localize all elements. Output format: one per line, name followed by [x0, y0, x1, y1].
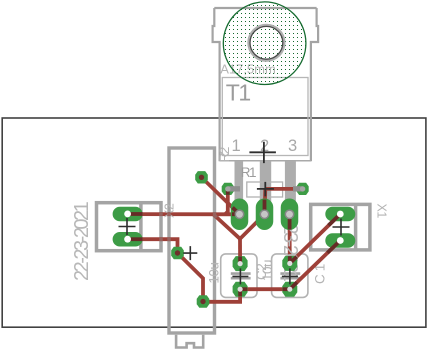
X1 pad 1 (oval): [325, 207, 355, 222]
X1 pad 1 hole: [337, 211, 344, 218]
X1 origin cross: [333, 219, 350, 236]
via V1 hole: [199, 175, 204, 180]
T1 pad 1 hole: [235, 210, 243, 218]
C2 pad 1 hole: [238, 261, 243, 266]
C1 origin cross: [282, 268, 298, 284]
svg-text:10u: 10u: [260, 260, 275, 281]
X1 pad 2 (oval): [325, 233, 355, 248]
C1 pad 1 (octagon): [282, 256, 297, 271]
svg-text:3: 3: [288, 137, 297, 155]
wire X2.1 to J0: [128, 212, 240, 216]
X2 origin cross: [119, 218, 136, 235]
outline-over-trace blends: [139, 212, 216, 241]
X2 pad 1 hole: [124, 211, 131, 218]
svg-text:1: 1: [232, 137, 241, 155]
svg-text:R1: R1: [241, 165, 256, 180]
wire C2 pad2 to C1 pad2: [240, 287, 290, 291]
T1 pad 1 (oval): [231, 199, 249, 231]
C1 pad 2 hole: [287, 287, 292, 292]
capacitor C2 outline: [221, 254, 257, 298]
T1 hole ring inner edge: [250, 26, 283, 59]
C1 pad 2 (octagon): [282, 282, 297, 297]
T1 origin cross: [249, 142, 276, 163]
R1 lead stub right: [293, 186, 303, 191]
heatsink bottom tab: [176, 335, 203, 348]
svg-text:T1: T1: [226, 79, 251, 105]
C2 pad 2 (octagon): [233, 282, 248, 297]
C2 pad 1 (octagon): [233, 256, 248, 271]
via B hole: [200, 299, 205, 304]
T1 leg 3: [285, 161, 296, 205]
via B (octagon): [197, 295, 210, 307]
X1 pad 2 hole: [337, 237, 344, 244]
svg-text:R2: R2: [216, 146, 232, 162]
wire C1 pad1 to X1.1: [290, 214, 341, 263]
R1 pad 1 hole: [225, 186, 230, 191]
T1 pad 2 hole: [260, 210, 268, 218]
wire R1 origin to T1 pad2: [263, 189, 268, 214]
connector X1 outline: [311, 204, 370, 250]
T1 inner body rectangle: [222, 78, 308, 156]
wire via V1 to T1 pad1: [202, 177, 240, 214]
C1 pad 1 hole: [287, 261, 292, 266]
wire J0 to J1: [213, 214, 240, 239]
X2 pad 2 hole: [124, 236, 131, 243]
heatsink origin cross: [183, 246, 197, 260]
connector X2 divider: [139, 203, 143, 251]
capacitor C1 outline: [272, 254, 308, 298]
R1 origin cross: [257, 182, 274, 197]
T1 keepout dotted circle: [223, 2, 306, 85]
svg-text:22-23-2021: 22-23-2021: [71, 201, 93, 281]
T1 pad 3 (oval): [281, 199, 299, 231]
R1 pad 2 (octagon): [297, 183, 309, 195]
R1 pad 2 hole: [300, 186, 305, 191]
board frame: [2, 118, 426, 327]
heatsink outline: [169, 148, 215, 333]
connector X1 divider: [354, 205, 358, 250]
in-pad trace overlays: [128, 189, 340, 296]
svg-text:10u: 10u: [207, 263, 222, 284]
wire via B to C2 pad2: [203, 289, 240, 302]
via A hole: [175, 250, 180, 255]
T1 pad 2 (oval): [256, 199, 274, 231]
capacitor C1 plates: [280, 272, 300, 275]
T1 hole ring: [249, 25, 285, 61]
wire X2.2 to via A: [128, 239, 178, 253]
svg-text:X1: X1: [375, 204, 389, 219]
wire T1 pad3 to C1 pad1: [288, 214, 292, 263]
transformer T1 body outline: [213, 8, 319, 161]
T1 pad 3 hole: [285, 210, 293, 218]
T1 leg 2: [260, 161, 271, 205]
via V1 (octagon): [195, 171, 208, 183]
via A (octagon): [171, 247, 184, 259]
resistor R1 body outline: [247, 182, 283, 197]
wire R1 pad1 down: [225, 189, 228, 214]
X2 pad 1 (oval): [113, 207, 143, 222]
R1 lead stub left: [228, 186, 240, 191]
C2 origin cross: [232, 268, 248, 284]
wire via A to via B: [178, 253, 204, 302]
wire J1 to T1 pad2: [240, 214, 265, 239]
wire C1 pad2 to X1.2: [290, 241, 341, 290]
C2 pad 2 hole: [238, 287, 243, 292]
T1 leg 1: [235, 161, 244, 205]
R1 pad 1 (octagon): [222, 183, 234, 195]
connector X2 outline: [97, 203, 162, 251]
capacitor C2 plates: [231, 272, 251, 275]
wire J1 to C2 pad1: [238, 239, 242, 264]
wire R1 origin to R1 pad2: [265, 187, 302, 191]
X2 pad 2 (oval): [113, 232, 143, 247]
